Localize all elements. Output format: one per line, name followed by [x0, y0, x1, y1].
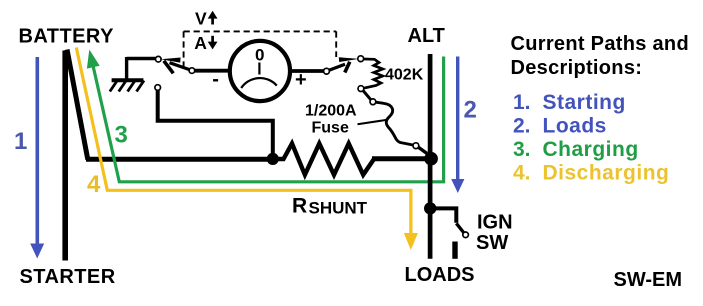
- current path 4 discharging (yellow): [76, 48, 411, 235]
- svg-text:Charging: Charging: [543, 138, 639, 161]
- meter scale arc: [241, 78, 277, 88]
- svg-text:A: A: [194, 33, 207, 53]
- svg-text:Starting: Starting: [543, 91, 626, 114]
- switch IGN blade: [456, 223, 464, 233]
- svg-text:3.: 3.: [513, 138, 531, 161]
- node junction LOADS: [424, 202, 436, 214]
- contact fuse bottom: [413, 143, 419, 149]
- svg-text:SW: SW: [476, 232, 508, 254]
- svg-text:+: +: [295, 69, 307, 91]
- svg-text:Fuse: Fuse: [312, 120, 349, 137]
- svg-text:1.: 1.: [513, 91, 531, 114]
- meter M1: [230, 41, 290, 101]
- node junction left shunt: [267, 153, 279, 165]
- current path 2 loads (blue): [456, 57, 459, 181]
- dashed meter range box: [184, 30, 337, 32]
- svg-text:ALT: ALT: [408, 25, 445, 47]
- svg-text:STARTER: STARTER: [20, 266, 116, 288]
- svg-text:SW-EM: SW-EM: [614, 269, 682, 291]
- contact right switch pole: [324, 68, 330, 74]
- svg-text:4.: 4.: [513, 162, 531, 185]
- svg-text:Discharging: Discharging: [543, 162, 670, 185]
- svg-text:R: R: [292, 195, 307, 218]
- svg-text:BATTERY: BATTERY: [19, 26, 115, 48]
- fuse F1 1/200A element: [376, 102, 413, 145]
- svg-text:V: V: [195, 9, 207, 29]
- wire IGN branch: [430, 208, 456, 222]
- wire meter left lead: [195, 69, 229, 73]
- contact right switch to 402K: [358, 56, 364, 62]
- wire lower tap to shunt node: [158, 91, 273, 154]
- svg-text:-: -: [212, 69, 219, 91]
- contact fuse top: [370, 99, 376, 105]
- current path 1 starting (blue): [35, 57, 39, 244]
- svg-text:2.: 2.: [513, 115, 531, 138]
- resistor R_SHUNT: [276, 144, 374, 175]
- contact left switch ground: [156, 56, 162, 62]
- meter needle: [258, 63, 260, 75]
- svg-text:3: 3: [115, 121, 128, 148]
- contact IGN blade: [463, 232, 469, 238]
- battery cable B+: [62, 51, 68, 261]
- svg-text:Descriptions:: Descriptions:: [511, 57, 643, 79]
- wire ALT vertical: [428, 54, 433, 259]
- svg-text:LOADS: LOADS: [405, 264, 475, 286]
- svg-text:4: 4: [87, 171, 101, 198]
- node junction ALT: [424, 152, 438, 166]
- svg-text:402K: 402K: [385, 66, 424, 83]
- svg-text:1/200A: 1/200A: [305, 103, 357, 120]
- wire main horizontal bus: [86, 157, 276, 162]
- svg-text:Current Paths and: Current Paths and: [511, 33, 689, 55]
- current path 3 charging (green): [93, 57, 443, 182]
- svg-text:SHUNT: SHUNT: [309, 199, 368, 218]
- fuse pointer line: [358, 120, 388, 125]
- wire shunt to ALT node: [372, 156, 432, 161]
- svg-text:2: 2: [464, 96, 477, 123]
- wire meter right lead: [292, 69, 324, 73]
- svg-text:Loads: Loads: [543, 115, 607, 138]
- svg-text:IGN: IGN: [477, 211, 513, 233]
- contact lower tap: [155, 85, 161, 91]
- wire 402K to fuse: [363, 91, 371, 100]
- ground symbol: [127, 57, 156, 60]
- wire battery diagonal: [67, 50, 88, 160]
- switch SW-right blade: [329, 64, 345, 70]
- resistor 402K: [364, 59, 383, 88]
- svg-text:1: 1: [14, 128, 27, 155]
- switch SW-left blade: [170, 63, 190, 70]
- wire IGN lower terminal: [452, 242, 457, 259]
- contact left switch pole: [189, 68, 195, 74]
- svg-text:0: 0: [255, 45, 264, 64]
- wire fuse to ALT node: [418, 147, 427, 153]
- contact 402K bottom: [358, 86, 364, 92]
